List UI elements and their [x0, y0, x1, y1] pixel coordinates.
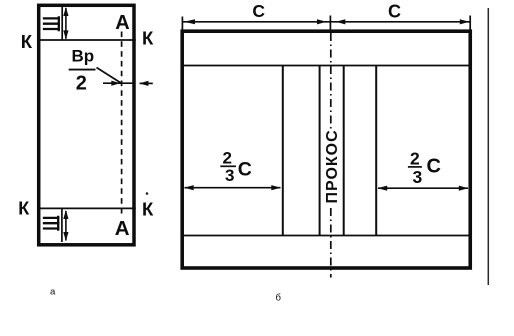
dash-dot centerline lower part	[330, 208, 332, 278]
left field rectangle (figure a)	[39, 5, 134, 245]
label 2 denominator	[76, 72, 87, 94]
svg-text:К: К	[21, 31, 33, 52]
label Vr fraction numerator	[72, 47, 95, 66]
inner boundary line right (2/3 C)	[375, 66, 377, 236]
svg-text:а: а	[50, 287, 56, 298]
leader line from Vr/2 to dashed line	[97, 68, 122, 84]
svg-text:К: К	[18, 198, 30, 218]
svg-text:С: С	[427, 156, 441, 178]
svg-text:С: С	[252, 1, 265, 21]
label PROKOS (vertical)	[324, 129, 341, 203]
page margin line right	[487, 8, 489, 285]
caption b	[276, 293, 282, 304]
label K bottom-left	[18, 198, 30, 218]
svg-text:А: А	[115, 217, 130, 240]
dimension arrow 2/3 C left (double-headed)	[184, 185, 281, 190]
dash-dot centerline upper part	[330, 33, 332, 130]
svg-text:3: 3	[413, 167, 423, 187]
bottom headland line of figure b	[183, 235, 469, 237]
svg-text:К: К	[142, 28, 154, 49]
svg-text:2: 2	[223, 149, 232, 168]
svg-text:А: А	[115, 12, 129, 34]
label 2/3 C left: numerator 2	[223, 149, 232, 168]
sh compartment divider top	[61, 7, 63, 41]
right field rectangle (figure b)	[182, 31, 470, 268]
dashed working-pass line A-A	[121, 32, 123, 218]
svg-text:С: С	[238, 159, 252, 181]
dimension arrow 2/3 C right (double-headed)	[378, 186, 469, 191]
svg-text:2: 2	[410, 149, 420, 169]
svg-text:3: 3	[225, 166, 234, 185]
swath strip left edge	[319, 66, 321, 236]
swath strip right edge	[343, 66, 345, 236]
bottom headland line K-K	[37, 207, 136, 209]
label A bottom	[115, 217, 130, 240]
fraction bar left	[220, 165, 236, 167]
half working width arrow right (points left)	[139, 81, 152, 86]
label K top-right	[142, 28, 154, 49]
label K bottom-right	[142, 199, 154, 220]
svg-text:С: С	[388, 2, 401, 22]
label sh top (rotated glyph drawn as path)	[44, 17, 59, 30]
sh width arrow bottom (double-headed vertical)	[63, 210, 68, 241]
fraction bar right	[408, 166, 422, 168]
label 2/3 C right: letter C	[427, 156, 441, 178]
label sh bottom (rotated glyph drawn as path)	[44, 217, 58, 230]
svg-text:б: б	[276, 293, 282, 304]
label K top-left	[21, 31, 33, 52]
label 2/3 C left: letter C	[238, 159, 252, 181]
dimension extension tick left	[181, 17, 183, 32]
label 2/3 C left: denominator 3	[225, 166, 234, 185]
svg-text:Вр: Вр	[72, 47, 95, 66]
svg-text:К: К	[142, 199, 154, 220]
inner boundary line left (2/3 C)	[282, 66, 284, 236]
svg-text:ПРОКОС: ПРОКОС	[324, 129, 341, 203]
sh compartment divider bottom	[61, 208, 63, 242]
label 2/3 C right: denominator 3	[413, 167, 423, 187]
centerline tick above dimension line	[329, 16, 331, 30]
top headland line K-K	[37, 39, 136, 41]
top headland line of figure b	[183, 65, 469, 67]
half working width arrow left (points right)	[103, 81, 135, 86]
caption a	[50, 287, 56, 298]
dimension line C (top)	[183, 19, 470, 24]
svg-text:2: 2	[76, 72, 87, 94]
fraction bar Vr/2	[69, 69, 96, 71]
label A top	[115, 12, 129, 34]
dimension extension tick right	[469, 16, 471, 35]
label C left	[252, 1, 265, 21]
label 2/3 C right: numerator 2	[410, 149, 420, 169]
sh width arrow top (double-headed vertical)	[63, 7, 68, 39]
small tick mark above bottom-right K	[146, 192, 149, 195]
label C right	[388, 2, 401, 22]
